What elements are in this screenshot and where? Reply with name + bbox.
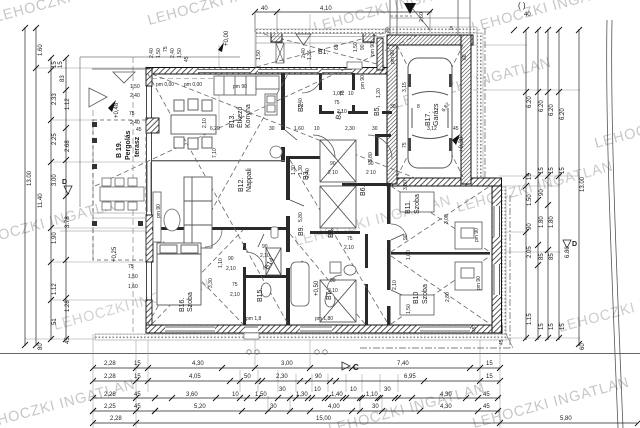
RIGHT DIMENSION LINES	[511, 27, 579, 346]
diag living X b	[148, 74, 288, 324]
svg-text:Szoba: Szoba	[414, 194, 421, 214]
svg-text:1.60: 1.60	[38, 44, 44, 56]
svg-text:1,60: 1,60	[294, 126, 304, 132]
svg-text:Konyha: Konyha	[245, 104, 252, 128]
svg-text:90: 90	[539, 189, 545, 196]
svg-text:83: 83	[60, 75, 66, 82]
svg-text:2.33: 2.33	[52, 93, 58, 105]
south window B16	[165, 326, 215, 333]
svg-text:10: 10	[348, 91, 354, 97]
east wing north wall	[387, 178, 502, 186]
svg-text:10: 10	[314, 126, 320, 132]
svg-text:75: 75	[232, 282, 238, 288]
svg-text:60: 60	[462, 54, 468, 60]
level mark +0.30 garage	[452, 134, 465, 152]
svg-text:60: 60	[580, 343, 586, 350]
west wall pier 3	[146, 215, 153, 262]
svg-text:1,50: 1,50	[130, 84, 140, 90]
porch pillar right	[363, 31, 374, 42]
PERGOLA B19	[89, 69, 150, 260]
svg-text:6.20: 6.20	[549, 104, 555, 116]
svg-text:90: 90	[527, 223, 533, 230]
svg-text:1.28: 1.28	[65, 300, 71, 312]
overhang dash-dot bottom	[360, 347, 510, 349]
svg-text:1.90: 1.90	[52, 232, 58, 244]
svg-text:15: 15	[486, 374, 493, 380]
svg-text:90: 90	[262, 244, 268, 250]
pergola column 2	[92, 138, 97, 143]
svg-text:7,40: 7,40	[397, 361, 409, 367]
svg-text:3,30: 3,30	[208, 278, 214, 288]
svg-text:45: 45	[499, 339, 505, 345]
diag B11 X b	[391, 186, 490, 252]
desk B11	[455, 222, 482, 249]
svg-text:3,00: 3,00	[281, 361, 293, 367]
car in garage	[408, 58, 452, 168]
TOP DIMENSION LINE	[255, 11, 432, 13]
grid dashed vertical pergola west	[92, 110, 94, 262]
section marker D left	[62, 179, 72, 194]
window north entry	[258, 69, 318, 73]
svg-text:6.20: 6.20	[560, 108, 566, 120]
svg-text:D: D	[62, 179, 67, 186]
svg-text:1,36: 1,36	[307, 50, 313, 60]
grid dashed vertical pergola	[132, 57, 134, 332]
roof overhang outline pergola	[80, 57, 240, 207]
svg-text:15: 15	[527, 173, 533, 180]
pergola truss triangle 1	[113, 72, 135, 83]
porch gable triangle	[296, 34, 311, 45]
svg-text:13.00: 13.00	[580, 176, 586, 192]
svg-text:1,50: 1,50	[177, 48, 183, 58]
svg-text:75: 75	[347, 236, 353, 242]
stair/B6 wall	[375, 134, 379, 156]
svg-text:90: 90	[315, 374, 322, 380]
svg-text:45: 45	[483, 392, 490, 398]
svg-text:10: 10	[314, 387, 321, 393]
desk B10	[455, 262, 482, 290]
kitchen counter	[214, 76, 279, 95]
svg-text:90: 90	[360, 44, 366, 50]
svg-text:40: 40	[524, 12, 531, 18]
ROOM LABELS	[116, 49, 440, 312]
garage west wall	[387, 35, 397, 184]
svg-text:B15.: B15.	[257, 288, 264, 302]
sink B7	[344, 265, 356, 275]
wall B11/B10 divider	[391, 252, 490, 255]
svg-text:10: 10	[350, 387, 357, 393]
svg-text:2,28: 2,28	[104, 361, 116, 367]
svg-text:30: 30	[279, 387, 286, 393]
pergola garden table	[100, 178, 144, 210]
sofa	[184, 177, 212, 248]
threshold B15	[244, 333, 259, 339]
wall B14/B15 head	[296, 231, 360, 234]
svg-text:B9.: B9.	[298, 225, 305, 236]
svg-text:3,40: 3,40	[298, 98, 304, 108]
svg-text:3,60: 3,60	[186, 392, 198, 398]
door B7 arc	[327, 275, 342, 290]
svg-text:pm 90: pm 90	[156, 204, 162, 218]
svg-text:2,10: 2,10	[226, 266, 236, 272]
svg-text:B6.: B6.	[360, 185, 367, 196]
svg-text:15: 15	[549, 167, 555, 174]
wall B3 south stub	[286, 156, 320, 159]
door leaves	[258, 130, 404, 296]
svg-text:1,60: 1,60	[128, 284, 138, 290]
svg-text:45: 45	[136, 127, 142, 133]
svg-text:2,28: 2,28	[104, 374, 116, 380]
wall corridor west	[286, 156, 290, 325]
svg-text:13.00: 13.00	[27, 170, 33, 186]
window west terrace door	[147, 162, 151, 212]
svg-text:Szoba: Szoba	[187, 292, 194, 312]
svg-text:pm 90: pm 90	[360, 75, 366, 89]
svg-text:Szoba: Szoba	[422, 284, 429, 304]
svg-text:75: 75	[163, 46, 169, 52]
driveway lines top of garage	[390, 0, 470, 35]
diag B10 X a	[391, 256, 490, 324]
diag kitchen long	[152, 74, 420, 180]
svg-text:1,20: 1,20	[376, 88, 382, 98]
pergola beams	[60, 213, 147, 231]
tub B7	[291, 262, 309, 306]
svg-text:pm 90: pm 90	[474, 228, 480, 242]
svg-text:pm 90: pm 90	[390, 50, 396, 64]
door B16 arc	[205, 230, 222, 247]
eave dotted band garage right	[477, 33, 483, 181]
svg-text:5,20: 5,20	[194, 404, 206, 410]
svg-text:B12.: B12.	[238, 178, 245, 192]
svg-text:2,10: 2,10	[202, 118, 208, 128]
svg-text:2 10: 2 10	[337, 109, 347, 115]
svg-text:B11.: B11.	[405, 200, 412, 214]
svg-text:80: 80	[38, 343, 44, 350]
diag B16	[152, 230, 243, 324]
car wheels	[409, 74, 452, 151]
svg-text:( ): ( )	[518, 1, 526, 10]
diag porch X a	[256, 32, 388, 67]
pergola column 1	[92, 122, 97, 127]
wall corridor east (right wing)	[387, 186, 391, 325]
east window B11	[493, 206, 501, 237]
diag living X a	[148, 74, 288, 324]
svg-text:2,28: 2,28	[104, 392, 116, 398]
svg-text:45: 45	[184, 56, 190, 62]
svg-text:8: 8	[417, 104, 420, 110]
svg-text:pm 0,00: pm 0,00	[156, 82, 174, 88]
diag corridor	[290, 160, 387, 322]
svg-text:15: 15	[134, 361, 141, 367]
boundary line right a	[607, 20, 618, 428]
svg-text:1,50: 1,50	[353, 42, 359, 52]
walls B4/B5 block	[319, 73, 322, 114]
svg-text:pm 1,80: pm 1,80	[315, 316, 333, 322]
west wall pier 1	[146, 68, 152, 86]
svg-text:3.78: 3.78	[65, 216, 71, 228]
pergola top beam	[92, 68, 150, 70]
svg-text:90: 90	[330, 161, 336, 167]
SMALL DIM LABELS interior	[128, 12, 505, 345]
kitchen-living beam	[152, 160, 285, 161]
north wall	[146, 68, 392, 75]
svg-text:45: 45	[453, 126, 459, 132]
closet X B8 low	[320, 280, 356, 322]
wall kitchen/B2	[281, 73, 285, 162]
svg-text:30: 30	[372, 404, 379, 410]
svg-text:B16.: B16.	[179, 298, 186, 312]
svg-text:15: 15	[560, 167, 566, 174]
svg-text:1.12: 1.12	[65, 98, 71, 110]
svg-text:50: 50	[244, 374, 251, 380]
boundary line right b	[612, 20, 623, 428]
svg-text:6,95: 6,95	[404, 374, 416, 380]
diag B10 X b	[391, 256, 490, 324]
svg-text:2,10: 2,10	[344, 245, 354, 251]
svg-text:30: 30	[269, 126, 275, 132]
DIAGONAL DASHED LINES	[95, 32, 490, 324]
svg-text:terasz: terasz	[134, 136, 141, 157]
svg-text:B17.: B17.	[425, 112, 432, 126]
svg-text:15: 15	[549, 323, 555, 330]
south window B10	[420, 326, 470, 333]
south door B15	[245, 326, 258, 333]
svg-text:90: 90	[403, 234, 409, 240]
entry threshold	[347, 62, 362, 69]
svg-text:75: 75	[129, 111, 135, 117]
svg-text:1,10: 1,10	[366, 392, 378, 398]
svg-text:Garázs: Garázs	[433, 103, 440, 126]
svg-text:15: 15	[58, 61, 64, 68]
door B15 arc	[246, 252, 264, 270]
pergola truss triangle 2	[89, 88, 107, 107]
svg-text:6.80: 6.80	[565, 246, 571, 258]
svg-text:2,10: 2,10	[260, 253, 270, 259]
svg-text:+0,30: +0,30	[459, 136, 465, 152]
svg-text:6.20: 6.20	[527, 96, 533, 108]
LEFT DIMENSION LINES	[25, 27, 66, 346]
section marker D right	[563, 240, 577, 248]
svg-text:90: 90	[330, 278, 336, 284]
svg-text:pm 90: pm 90	[370, 42, 376, 56]
svg-text:2,25: 2,25	[104, 404, 116, 410]
svg-text:2,80: 2,80	[445, 292, 451, 302]
door B3 arc	[313, 135, 335, 157]
eave dotted band garage top	[387, 27, 477, 33]
closet X B8 top	[320, 140, 356, 182]
svg-text:2,30: 2,30	[276, 374, 288, 380]
svg-text:15: 15	[560, 323, 566, 330]
svg-text:pm 90: pm 90	[233, 84, 247, 90]
svg-text:4,10: 4,10	[320, 6, 332, 12]
svg-text:75: 75	[334, 100, 340, 106]
svg-text:Pergolás: Pergolás	[125, 130, 132, 160]
svg-text:3,00: 3,00	[444, 214, 450, 224]
svg-text:B13.: B13.	[229, 114, 236, 128]
porch pillar left	[271, 31, 282, 42]
dim line L4	[65, 57, 67, 340]
wall B7 east	[365, 234, 368, 325]
svg-text:2,10: 2,10	[328, 288, 338, 294]
svg-text:15: 15	[486, 361, 493, 367]
section marker C	[342, 362, 359, 372]
svg-text:45: 45	[483, 404, 490, 410]
svg-text:4,00: 4,00	[328, 404, 340, 410]
dim line L1 13.00	[24, 27, 26, 346]
eave dotted band bottom	[95, 334, 507, 340]
svg-text:45: 45	[65, 337, 71, 344]
svg-text:10: 10	[232, 392, 239, 398]
porch eave dotted band	[256, 29, 385, 34]
svg-text:2 10: 2 10	[366, 170, 376, 176]
south wall	[146, 325, 502, 333]
closet X B8 mid	[320, 186, 356, 228]
diag step eave bottom-right	[506, 334, 513, 348]
svg-text:2,30: 2,30	[345, 126, 355, 132]
svg-text:85: 85	[549, 253, 555, 260]
svg-text:2,40: 2,40	[149, 48, 155, 58]
svg-text:6,20: 6,20	[210, 126, 220, 132]
east window B10	[493, 264, 501, 295]
svg-text:1.80: 1.80	[539, 216, 545, 228]
svg-text:45: 45	[472, 326, 478, 332]
diag porch X b	[256, 32, 388, 67]
svg-text:3,00: 3,00	[403, 180, 409, 190]
svg-text:3.00: 3.00	[52, 174, 58, 186]
garage east wall	[461, 35, 471, 184]
svg-text:5,80: 5,80	[560, 416, 572, 422]
svg-text:15: 15	[539, 167, 545, 174]
svg-text:B 19.: B 19.	[116, 141, 123, 158]
south window B7	[300, 326, 332, 333]
pergola column 4	[92, 221, 97, 226]
svg-text:B10: B10	[413, 291, 420, 304]
svg-text:85: 85	[539, 253, 545, 260]
bed B11	[400, 192, 434, 212]
porch beam lines	[256, 36, 385, 38]
svg-text:90: 90	[228, 256, 234, 262]
svg-text:B1.: B1.	[318, 49, 329, 56]
svg-text:40: 40	[261, 6, 268, 12]
svg-text:1,40: 1,40	[331, 392, 343, 398]
svg-text:+0,48: +0,48	[114, 102, 120, 118]
svg-text:75: 75	[128, 264, 134, 270]
door B5 arc	[368, 135, 392, 159]
svg-text:1,30: 1,30	[298, 165, 304, 175]
svg-text:1,50: 1,50	[255, 392, 267, 398]
svg-text:1,50: 1,50	[256, 50, 262, 60]
svg-text:Nappali: Nappali	[246, 168, 253, 192]
west wall glazing	[147, 73, 152, 325]
svg-text:4,05: 4,05	[189, 374, 201, 380]
svg-text:2,40: 2,40	[130, 93, 140, 99]
door gaps	[243, 90, 392, 306]
svg-text:D: D	[572, 241, 577, 248]
svg-text:30: 30	[390, 104, 396, 110]
kitchen counter east	[265, 94, 277, 115]
porch wall stub east	[377, 38, 383, 70]
grid circle marks	[247, 350, 327, 354]
east wall	[492, 178, 502, 333]
diag B11 X a	[391, 186, 490, 252]
wall living/B16	[152, 227, 290, 230]
svg-text:1,30: 1,30	[291, 165, 297, 175]
svg-text:2.68: 2.68	[65, 140, 71, 152]
svg-text:3,15: 3,15	[402, 82, 408, 92]
wc B7	[325, 293, 335, 307]
window north kitchen	[198, 69, 250, 73]
ground line full width	[0, 353, 640, 355]
svg-text:4,30: 4,30	[440, 392, 452, 398]
svg-text:1,50: 1,50	[128, 274, 138, 280]
svg-text:15,00: 15,00	[316, 416, 332, 422]
svg-text:45: 45	[134, 392, 141, 398]
svg-text:75: 75	[340, 90, 346, 96]
svg-text:60: 60	[334, 44, 340, 50]
door corridor arc	[391, 224, 407, 240]
svg-text:2,40: 2,40	[170, 48, 176, 58]
garage north wall	[387, 35, 473, 45]
svg-text:pm 1,8: pm 1,8	[246, 316, 262, 322]
wc B15	[261, 283, 271, 297]
INTERIOR WALLS	[152, 73, 490, 325]
svg-text:45: 45	[134, 404, 141, 410]
west wall pier 2	[146, 118, 159, 133]
svg-text:+0,25: +0,25	[112, 246, 118, 262]
svg-text:B5,: B5,	[374, 105, 381, 116]
svg-text:30: 30	[270, 404, 277, 410]
dim line L2 11.40	[35, 27, 37, 346]
svg-text:1,50: 1,50	[406, 304, 412, 314]
svg-text:2 10: 2 10	[328, 170, 338, 176]
level arrow +0.00	[218, 3, 416, 52]
svg-text:1.50: 1.50	[527, 194, 533, 206]
eave dotted band right	[500, 187, 506, 334]
svg-text:5: 5	[450, 26, 453, 32]
diag long through pergola	[95, 34, 420, 186]
porch post brace X	[276, 43, 284, 63]
plant	[270, 146, 282, 158]
diag B16 b	[152, 230, 243, 324]
svg-text:1,50: 1,50	[156, 48, 162, 58]
diag garage X b	[397, 45, 463, 177]
svg-text:2,40: 2,40	[305, 168, 311, 178]
coffee table	[164, 209, 180, 231]
wall B16/B15	[243, 243, 246, 325]
west wall pier 4	[146, 300, 152, 325]
svg-text:C: C	[353, 363, 359, 372]
svg-text:5,80: 5,80	[298, 212, 304, 222]
BOTTOM DIMENSION ROWS	[93, 368, 638, 423]
svg-text:2,28: 2,28	[110, 416, 122, 422]
svg-text:pm 90: pm 90	[476, 276, 482, 290]
svg-text:2,40: 2,40	[130, 120, 140, 126]
svg-text:2,10: 2,10	[230, 292, 240, 298]
svg-text:30: 30	[384, 387, 391, 393]
svg-text:pm 0,00: pm 0,00	[184, 82, 202, 88]
svg-text:15: 15	[539, 323, 545, 330]
closet X B14	[266, 248, 281, 275]
svg-text:2,10: 2,10	[392, 280, 398, 290]
svg-text:+0,50: +0,50	[314, 280, 320, 296]
svg-text:4,30: 4,30	[192, 361, 204, 367]
window north B5	[322, 69, 352, 73]
svg-text:B8.: B8.	[328, 227, 335, 238]
svg-text:1,30: 1,30	[296, 392, 308, 398]
pergola column 5	[138, 221, 143, 226]
svg-text:90: 90	[368, 161, 374, 167]
svg-text:2.25: 2.25	[52, 133, 58, 145]
